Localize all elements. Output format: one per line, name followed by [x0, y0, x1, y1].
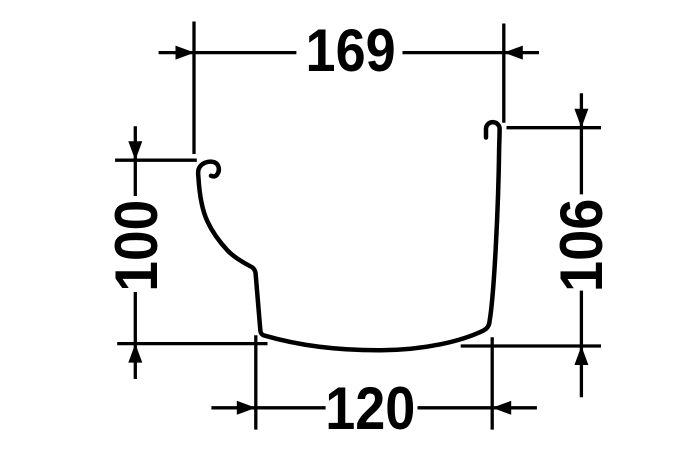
gutter profile: [198, 122, 499, 350]
arrowhead bottom of 106: [574, 346, 588, 365]
extension line top of 106: [507, 126, 602, 129]
extension line bottom of 100: [117, 342, 267, 345]
svg-text:106: 106: [548, 199, 615, 293]
extension line bottom-left of 120: [254, 335, 257, 429]
arrowhead right of 169: [504, 46, 523, 60]
dimension text 169: [306, 17, 396, 84]
dimension text 120: [325, 375, 415, 442]
dimension line 120: [211, 406, 537, 409]
extension line top-left of 169: [192, 22, 195, 155]
arrowhead right of 120: [492, 401, 511, 415]
arrowhead top of 106: [574, 109, 588, 128]
extension line top-right of 169: [502, 24, 505, 123]
dimension line 169: [159, 51, 539, 54]
dimension line 106: [580, 93, 583, 397]
dimension text 100: [104, 200, 171, 292]
svg-text:169: 169: [306, 17, 396, 84]
svg-text:120: 120: [325, 375, 415, 442]
extension line top of 100: [115, 159, 197, 162]
arrowhead left of 120: [237, 401, 256, 415]
svg-text:100: 100: [104, 200, 171, 292]
dimension line 100: [134, 126, 137, 379]
dimension text 106: [548, 199, 615, 293]
extension line bottom of 106: [461, 344, 601, 347]
arrowhead left of 169: [176, 46, 195, 60]
extension line bottom-right of 120: [491, 337, 494, 429]
arrowhead top of 100: [128, 141, 142, 160]
arrowhead bottom of 100: [128, 344, 142, 363]
